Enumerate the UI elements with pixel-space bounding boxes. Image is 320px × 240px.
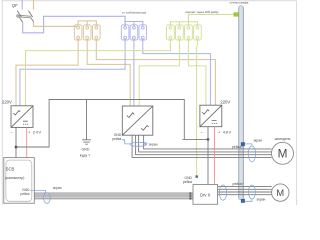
wire N2 to converter (blue) <box>133 39 135 106</box>
wire L3 to PSU2 (tan) <box>96 39 215 105</box>
terminal XT3.2 (PE) <box>176 25 184 40</box>
wire N from QF to N terminal group (blue) <box>23 16 125 33</box>
breaker QF pole 2 blade <box>28 11 32 17</box>
terminal XT1.1 (L) <box>74 25 82 40</box>
shield ellipse after wall M2 <box>248 185 255 199</box>
svg-text:рейка?: рейка? <box>233 182 244 186</box>
breaker QF pole 1 blade <box>17 11 21 17</box>
shield ellipse after wall M1 <box>248 146 255 162</box>
wire converter output W to motor M1 <box>139 135 272 152</box>
svg-text:рейка: рейка <box>183 180 192 184</box>
wire L2 to converter (tan) <box>87 39 130 106</box>
shield ellipse at Drv X output <box>219 185 226 200</box>
svg-text:M: M <box>278 147 288 161</box>
cabinet wall bar <box>239 6 244 200</box>
BSV to Drv X signal wires (dark) <box>34 193 193 199</box>
svg-text:экран: экран <box>149 143 158 147</box>
svg-text:куда ?: куда ? <box>80 154 90 158</box>
svg-text:+ 48V: + 48V <box>218 129 232 134</box>
N terminal block jumper bus (blue) <box>125 22 143 27</box>
shield bond wire at converter (blue) <box>122 140 131 144</box>
svg-text:шпиндель: шпиндель <box>275 137 291 141</box>
wire L in to QF (tan) <box>33 0 35 10</box>
svg-text:экран: экран <box>53 186 62 190</box>
junction dot PSU1 minus / GND net <box>15 146 17 149</box>
wire PE4 to Drv X ground point (green) <box>196 39 199 176</box>
motor M1 (spindle) <box>272 142 294 164</box>
wall bond square at M1 (blue) <box>241 142 245 146</box>
svg-text:рейка: рейка <box>112 137 121 141</box>
svg-text:GND: GND <box>82 148 90 152</box>
svg-text:от стабилизатора: от стабилизатора <box>122 10 146 14</box>
shield marker diamond <box>144 142 147 145</box>
wire PE3 to PSU2 (green) <box>188 39 206 105</box>
shield bond wire wall square to ellipse M1 (blue) <box>245 144 252 147</box>
shield bond wire at BSV (blue) <box>30 190 45 193</box>
wire converter output U to motor M1 <box>132 135 272 157</box>
PE terminal jumper bus (green) <box>170 22 197 26</box>
terminal XT3.3 (PE) <box>185 25 193 40</box>
wire N in to QF (blue) <box>21 0 23 10</box>
svg-text:стена шкафа: стена шкафа <box>230 1 249 5</box>
breaker QF pole 2 lower blade <box>31 18 34 22</box>
Drv X ground dot <box>196 175 198 177</box>
page frame border <box>2 0 296 205</box>
motor M2 <box>272 184 289 201</box>
wire N1 to PSU1 (blue) <box>20 39 125 106</box>
terminal XT2.3 (N) <box>139 25 147 40</box>
wire PSU1 plus 24V to BSV (red) <box>26 127 28 158</box>
breaker QF linkage bar <box>17 15 32 18</box>
shield ellipse at BSV output <box>44 193 51 204</box>
wire PE1 to PSU1 (green) <box>26 39 171 106</box>
shield bond wire wall square to ellipse M2 (blue) <box>245 199 252 202</box>
svg-text:(компьютер): (компьютер) <box>5 176 24 180</box>
PSU1 AC/DC 24V power supply <box>11 106 33 128</box>
svg-text:QF: QF <box>12 3 18 8</box>
wire PSU2 plus 48V to Drv X (red) <box>214 127 216 185</box>
Drv X to motor M2 wires (dark) <box>218 187 272 195</box>
L terminal block jumper bus (tan) <box>78 21 96 26</box>
shield ellipse at converter output <box>130 142 147 146</box>
driver box Drv X <box>193 185 218 205</box>
svg-text:Drv X: Drv X <box>200 192 211 197</box>
svg-text:220V: 220V <box>220 99 230 104</box>
wire PSU2 minus to Drv X (dark) <box>207 127 209 185</box>
wire L1 to PSU1 (tan) <box>16 39 78 106</box>
ground symbol <box>82 140 91 144</box>
converter U1 (VFD) <box>122 106 153 135</box>
terminal XT3.1 (PE) <box>167 25 175 40</box>
GND net wire (dark) <box>16 100 184 148</box>
svg-text:экран: экран <box>257 198 266 202</box>
wall bond square at M2 (blue) <box>241 199 245 203</box>
wire converter output PE to motor M1 <box>144 135 272 149</box>
svg-text:экран: экран <box>253 138 262 142</box>
GND symbol tap wire <box>86 100 88 140</box>
svg-text:220V: 220V <box>2 99 12 104</box>
wire PE from DIN rail contact to PE terminal group (green) <box>188 14 234 21</box>
GND net link to PSU2 minus <box>184 138 208 140</box>
wire PSU1 minus to BSV (dark) <box>15 127 17 158</box>
svg-text:рейка: рейка <box>20 192 29 196</box>
terminal XT2.2 (N) <box>130 25 138 40</box>
svg-text:M: M <box>276 188 284 198</box>
BSV computer box <box>4 158 35 204</box>
wire N3 to PSU2 (blue) <box>143 39 211 105</box>
wire converter output V to motor M1 <box>136 135 272 155</box>
breaker QF pole 1 lower blade <box>19 18 22 23</box>
junction dot GND net / PSU2 minus <box>207 138 209 140</box>
arrowheads into Drv X <box>190 192 193 200</box>
DIN rail contact square (green) <box>234 13 239 17</box>
terminal XT1.2 (L) <box>83 25 91 40</box>
terminal XT3.4 (PE) <box>194 25 202 40</box>
svg-text:+ 24V: + 24V <box>28 130 42 135</box>
PSU2 AC/DC 48V power supply <box>200 105 222 127</box>
terminal XT1.3 (L) <box>93 25 101 40</box>
wire PE2 to converter (green) <box>139 39 179 106</box>
terminal XT2.1 (N) <box>121 25 129 40</box>
svg-text:БСВ: БСВ <box>6 166 15 171</box>
svg-text:контакт через DIN рейку: контакт через DIN рейку <box>185 10 219 14</box>
wire L from QF to L terminal group (tan) <box>34 22 79 26</box>
